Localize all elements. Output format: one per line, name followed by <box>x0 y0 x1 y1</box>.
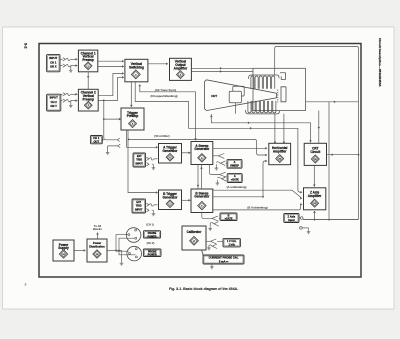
svg-text:CURRENT PROBE CAL: CURRENT PROBE CAL <box>209 256 239 260</box>
svg-text:(A unblanking): (A unblanking) <box>227 185 247 189</box>
svg-text:INPUT: INPUT <box>50 96 58 100</box>
svg-text:INPUT: INPUT <box>136 162 144 165</box>
svg-text:POWER: POWER <box>148 254 157 257</box>
svg-text:(Alt Trace Sync): (Alt Trace Sync) <box>155 88 177 92</box>
svg-text:5 mA ⎓: 5 mA ⎓ <box>219 259 229 263</box>
svg-text:Generator: Generator <box>194 195 210 199</box>
svg-text:Input: Input <box>288 218 294 222</box>
svg-text:Amplifier: Amplifier <box>174 66 188 70</box>
svg-text:(CH 1): (CH 1) <box>146 223 154 227</box>
svg-text:CH 1: CH 1 <box>93 136 100 140</box>
svg-text:POWER: POWER <box>147 235 156 238</box>
svg-text:Fig. 3-1. Basic block diagram: Fig. 3-1. Basic block diagram of the 454… <box>169 287 238 291</box>
svg-text:OR X: OR X <box>50 65 57 69</box>
svg-text:Preamp: Preamp <box>127 114 139 118</box>
svg-text:Switching: Switching <box>129 66 144 70</box>
svg-text:INPUT: INPUT <box>49 56 57 60</box>
svg-text:(Chopped Blanking): (Chopped Blanking) <box>150 94 177 98</box>
svg-text:(CH 2): (CH 2) <box>147 241 155 245</box>
svg-text:SWEEP: SWEEP <box>230 164 239 167</box>
svg-text:Generator: Generator <box>194 147 210 151</box>
svg-text:OUT: OUT <box>93 139 99 143</box>
svg-text:Preamp: Preamp <box>83 97 95 101</box>
svg-text:Circuit Description—454A/R454A: Circuit Description—454A/R454A <box>378 38 382 87</box>
svg-text:(B Unblanking): (B Unblanking) <box>247 205 267 209</box>
svg-text:Generator: Generator <box>162 195 178 199</box>
svg-text:Circuit: Circuit <box>310 150 320 154</box>
svg-text:CRT: CRT <box>211 94 217 98</box>
svg-text:CH 1: CH 1 <box>50 60 57 64</box>
svg-text:EXT: EXT <box>137 155 142 158</box>
svg-text:1 kHz: 1 kHz <box>229 243 236 246</box>
svg-text:OR Y: OR Y <box>50 104 57 108</box>
svg-text:CH 2: CH 2 <box>51 100 58 104</box>
svg-text:(50 mV/div): (50 mV/div) <box>154 134 169 138</box>
svg-text:TRIG: TRIG <box>136 159 142 162</box>
svg-text:Calibrator: Calibrator <box>187 230 203 234</box>
svg-text:Distribution: Distribution <box>89 245 105 249</box>
svg-text:Generator: Generator <box>162 149 178 153</box>
svg-text:Amplifier: Amplifier <box>273 150 287 154</box>
svg-text:EXT: EXT <box>136 201 141 204</box>
svg-text:INPUT: INPUT <box>135 208 143 211</box>
svg-text:Z Axis: Z Axis <box>288 214 296 218</box>
svg-text:Amplifier: Amplifier <box>308 194 322 198</box>
svg-text:3-2: 3-2 <box>24 43 28 49</box>
svg-text:+GATE: +GATE <box>231 179 239 182</box>
svg-text:+GATE: +GATE <box>224 218 232 221</box>
svg-text:TRIG: TRIG <box>136 205 142 208</box>
svg-text:Blocks: Blocks <box>93 227 102 231</box>
